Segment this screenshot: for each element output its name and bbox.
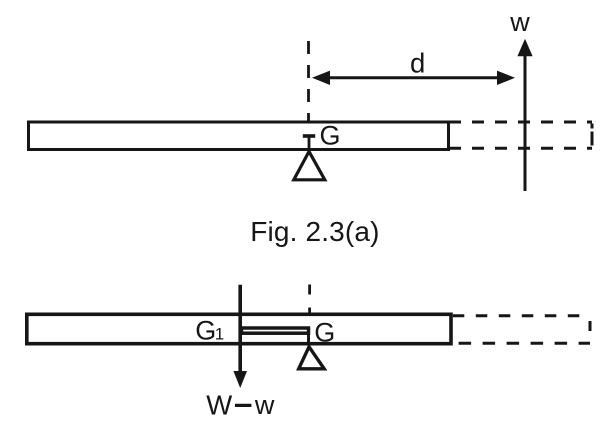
dashed extension right-end vertical dash (bottom figure) xyxy=(589,321,592,331)
svg-text:w: w xyxy=(254,390,275,420)
dashed centerline above G (bottom figure) xyxy=(308,285,311,317)
pivot stem below link bar at G (bottom figure) xyxy=(307,333,310,346)
pivot T-mark bar at G (top figure) xyxy=(303,134,315,138)
distance arrow d shaft (double-headed) xyxy=(326,76,500,79)
fulcrum triangle (top figure) xyxy=(294,152,325,180)
weight arrow w head (top figure) xyxy=(517,39,532,57)
weight arrow w shaft (top figure) xyxy=(524,54,527,191)
dashed extension top line (bottom figure) xyxy=(453,314,582,317)
svg-text:1: 1 xyxy=(215,325,224,344)
fulcrum triangle (bottom figure) xyxy=(299,347,325,369)
link bar from W-w line to G (double line) xyxy=(242,328,309,333)
distance arrow left head xyxy=(312,71,330,85)
svg-text:G: G xyxy=(320,121,341,151)
svg-text:G: G xyxy=(195,316,216,346)
dashed extension right-end vertical dash (top figure) xyxy=(591,124,594,148)
svg-text:w: w xyxy=(509,7,530,37)
force arrow W-w head (bottom figure) xyxy=(233,371,247,388)
dashed centerline through G (top figure) xyxy=(307,41,310,123)
svg-text:Fig. 2.3(a): Fig. 2.3(a) xyxy=(250,216,379,247)
dashed extension bottom line (top figure) xyxy=(449,147,592,150)
svg-text:G: G xyxy=(314,318,335,348)
distance arrow right head xyxy=(497,71,515,85)
svg-text:W: W xyxy=(206,390,232,421)
beam (top figure) xyxy=(29,122,449,150)
beam (bottom figure) xyxy=(27,314,451,343)
dashed extension bottom line (bottom figure) xyxy=(459,342,590,345)
force arrow W-w shaft (bottom figure) xyxy=(238,285,242,372)
dashed extension top line (top figure) xyxy=(449,121,592,124)
pivot T-mark stem at G (top figure) xyxy=(308,136,311,152)
svg-text:d: d xyxy=(410,47,425,78)
